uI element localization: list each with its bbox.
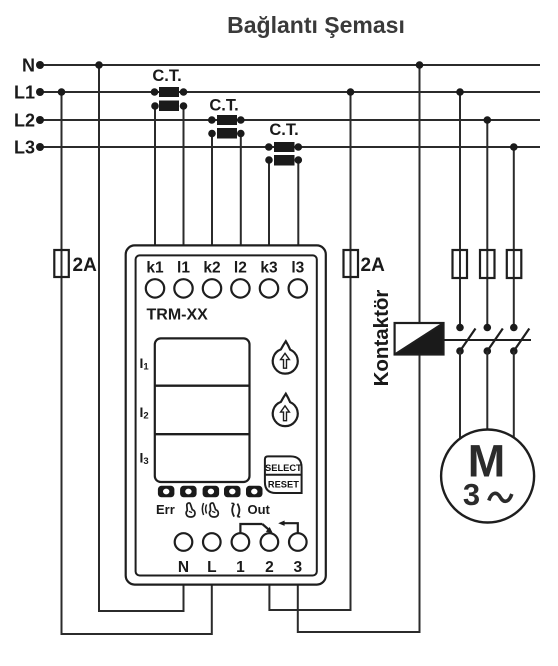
wire N drop to contactor coil — [419, 65, 421, 323]
wire coil bottom to device terminal 3 — [298, 355, 420, 633]
button up 1 — [273, 341, 298, 373]
svg-text:Kontaktör: Kontaktör — [370, 290, 393, 387]
junction L1 pole1 — [456, 88, 464, 96]
svg-text:l3: l3 — [291, 260, 304, 277]
junction N coil drop — [416, 61, 424, 69]
svg-text:k1: k1 — [146, 260, 164, 277]
fuse F2 2A — [344, 250, 359, 277]
LED 3 — [203, 486, 220, 498]
svg-text:C.T.: C.T. — [269, 121, 298, 139]
LED 4 — [224, 486, 241, 498]
node CT1 primary left dot — [151, 88, 159, 96]
junction L2 pole2 — [484, 116, 492, 124]
bus N wire — [40, 64, 540, 66]
svg-text:L2: L2 — [14, 111, 35, 131]
node CT3 secondary right dot — [295, 156, 303, 164]
wire CT2 k2 — [211, 134, 213, 246]
fuse F1 2A — [54, 250, 69, 277]
bus L1 wire — [40, 91, 540, 93]
node CT3 primary left dot — [265, 143, 273, 151]
wire L2 to contactor pole 2 — [486, 120, 488, 325]
wire CT1 l1 — [183, 106, 185, 245]
motor M — [441, 430, 534, 523]
svg-text:k2: k2 — [203, 260, 220, 277]
wire CT1 k1 — [154, 106, 156, 245]
contactor pole 1 — [456, 324, 475, 355]
fuse F4 — [480, 250, 495, 278]
svg-text:2A: 2A — [361, 255, 386, 276]
wire CT2 l2 — [240, 134, 242, 246]
display divider 1 — [155, 385, 250, 387]
transformer CT2 primary — [217, 115, 237, 125]
wire pole 3 to motor — [513, 351, 515, 442]
wire L1 drop through fuse to device L terminal — [62, 92, 212, 634]
svg-text:Out: Out — [248, 502, 271, 517]
svg-text:l1: l1 — [177, 260, 190, 277]
node CT1 primary right dot — [180, 88, 188, 96]
contactor linkage — [444, 339, 532, 341]
terminal k2 — [203, 279, 221, 297]
wire L3 to contactor pole 3 — [513, 147, 515, 325]
junction L1 drop — [58, 88, 66, 96]
svg-text:L3: L3 — [14, 138, 35, 158]
transformer CT1 primary — [159, 87, 179, 97]
svg-text:TRM-XX: TRM-XX — [147, 307, 209, 324]
svg-text:L: L — [207, 559, 216, 576]
bus L2 wire — [40, 119, 540, 121]
terminal 2 — [261, 533, 279, 551]
svg-text:Bağlantı Şeması: Bağlantı Şeması — [227, 12, 405, 38]
svg-text:2A: 2A — [73, 255, 98, 276]
wire L1 drop right through fuse to device terminal 2 — [269, 92, 350, 610]
svg-text:N: N — [22, 56, 35, 76]
svg-text:2: 2 — [265, 559, 274, 576]
terminal l2 — [231, 279, 249, 297]
icon rotation — [231, 503, 240, 517]
wire N drop to device N terminal — [99, 65, 184, 611]
button up 1 arrow — [281, 353, 290, 368]
node L2 terminal dot — [36, 116, 44, 124]
node L3 terminal dot — [36, 143, 44, 151]
svg-text:1: 1 — [236, 559, 245, 576]
node N terminal dot — [36, 61, 44, 69]
relay contact from terminal 3 — [283, 523, 298, 533]
junction L3 pole3 — [510, 143, 518, 151]
display window — [155, 338, 250, 482]
terminal l1 — [174, 279, 192, 297]
node CT2 primary right dot — [237, 116, 245, 124]
wire L1 to contactor pole 1 — [459, 92, 461, 325]
wire pole 1 to motor — [459, 351, 461, 442]
button SELECT RESET divider — [265, 474, 302, 476]
svg-text:L1: L1 — [14, 83, 35, 103]
LED 2 — [180, 486, 197, 498]
transformer CT3 primary — [274, 142, 295, 152]
svg-text:k3: k3 — [260, 260, 278, 277]
terminal k3 — [260, 279, 278, 297]
node CT2 primary left dot — [208, 116, 216, 124]
node CT1 secondary right dot — [180, 102, 188, 110]
fuse F5 — [507, 250, 522, 278]
contactor pole 3 — [510, 324, 529, 355]
node CT3 primary right dot — [295, 143, 303, 151]
bus L3 wire — [40, 146, 540, 148]
LED 1 — [158, 486, 175, 498]
svg-text:3: 3 — [463, 477, 480, 512]
svg-text:SELECT: SELECT — [265, 463, 302, 473]
transformer CT1 secondary — [159, 101, 179, 112]
svg-text:l2: l2 — [234, 260, 247, 277]
terminal N — [175, 533, 193, 551]
svg-text:C.T.: C.T. — [209, 97, 238, 115]
wire CT3 k3 — [268, 160, 270, 245]
node CT1 secondary left dot — [151, 102, 159, 110]
svg-text:RESET: RESET — [268, 480, 299, 490]
transformer CT3 secondary — [274, 155, 295, 166]
relay TRM-XX outer case — [126, 245, 326, 584]
button up 2 — [273, 394, 298, 426]
node L1 terminal dot — [36, 88, 44, 96]
svg-text:C.T.: C.T. — [152, 67, 181, 85]
node CT3 secondary left dot — [265, 156, 273, 164]
terminal 1 — [232, 533, 250, 551]
wire pole 2 to motor — [486, 351, 488, 432]
terminal L — [203, 533, 221, 551]
svg-text:N: N — [178, 559, 189, 576]
icon hand — [186, 503, 195, 517]
junction N drop — [95, 61, 103, 69]
contactor coil K1 — [395, 323, 444, 355]
LED 5 — [246, 486, 263, 498]
relay contact from terminal 1 — [240, 524, 262, 533]
wire CT3 l3 — [297, 160, 299, 245]
transformer CT2 secondary — [217, 128, 237, 139]
terminal 3 — [289, 533, 307, 551]
button up 2 arrow — [281, 406, 290, 421]
icon hand with touch — [202, 503, 218, 517]
svg-text:Err: Err — [156, 502, 175, 517]
button SELECT RESET outline — [265, 456, 302, 493]
terminal k1 — [146, 279, 164, 297]
node CT2 secondary right dot — [237, 130, 245, 138]
node CT2 secondary left dot — [208, 130, 216, 138]
terminal l3 — [289, 279, 307, 297]
svg-text:3: 3 — [293, 559, 302, 576]
fuse F3 — [453, 250, 468, 278]
relay TRM-XX inner face — [136, 255, 317, 575]
junction L1 right drop — [347, 88, 355, 96]
display divider 2 — [155, 433, 250, 435]
contactor pole 2 — [484, 324, 503, 355]
